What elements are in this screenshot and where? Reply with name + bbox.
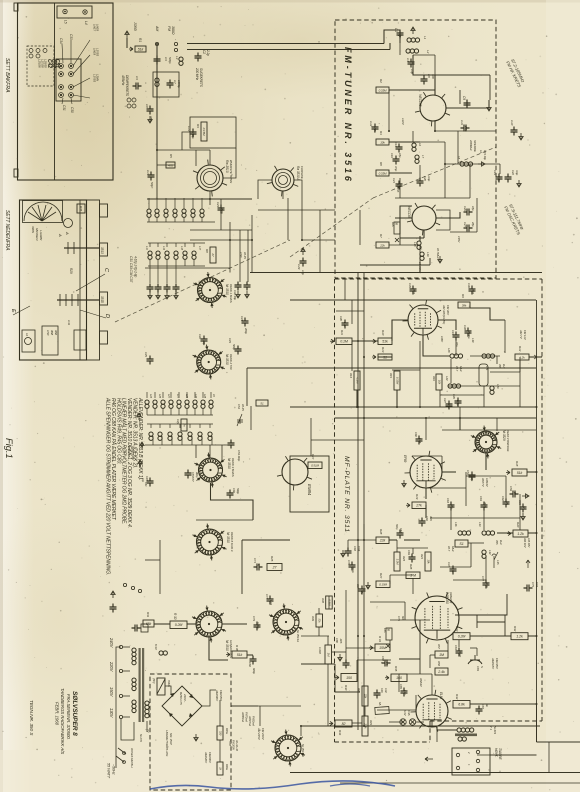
svg-text:R29: R29	[69, 268, 73, 274]
bank3 lead dn 147	[146, 409, 148, 415]
antenna strip pin 3	[59, 72, 64, 77]
T2 core2	[142, 648, 144, 722]
coil bank3 1	[153, 400, 157, 408]
svg-text:kHz: kHz	[499, 540, 503, 545]
MF-plate dashed edge	[334, 279, 336, 742]
switch S1 box	[455, 540, 468, 547]
svg-text:L17: L17	[198, 246, 202, 251]
svg-text:0.1M: 0.1M	[340, 340, 348, 344]
svg-text:LIKERETTERPLATE: LIKERETTERPLATE	[165, 730, 169, 757]
wire grid V3	[392, 320, 408, 341]
lamp wire2	[416, 721, 424, 723]
svg-text:18p: 18p	[450, 504, 454, 509]
R57 riser	[447, 640, 449, 651]
wire x520b	[519, 494, 521, 530]
C1 drop	[399, 43, 401, 55]
junction	[357, 406, 359, 408]
bank4 lead 151	[152, 436, 154, 445]
antenna strip pin 5	[59, 85, 64, 90]
capacitor C14	[396, 144, 403, 153]
bank3 lead up 187	[186, 392, 188, 398]
junction	[444, 163, 446, 165]
wire y488	[426, 487, 466, 489]
wire R19 down	[425, 505, 427, 518]
svg-text:C54: C54	[466, 470, 470, 475]
svg-text:L19: L19	[426, 252, 430, 257]
fm loop x460	[459, 90, 461, 104]
coil bank2 L15	[183, 251, 187, 259]
svg-text:R25: R25	[270, 556, 274, 562]
oscillator coil V2	[267, 166, 298, 197]
svg-text:15M: 15M	[379, 646, 386, 650]
riser x230	[229, 222, 231, 273]
mains tap 240V	[119, 645, 122, 648]
bank1 lead 1	[156, 198, 158, 209]
svg-text:3B: 3B	[387, 628, 391, 631]
triode U1b ECC85	[407, 203, 440, 235]
svg-text:C32 18p: C32 18p	[233, 290, 237, 300]
svg-text:6AV33EF1: 6AV33EF1	[35, 228, 39, 241]
capacitor C71	[254, 564, 263, 571]
AM antenna drop	[156, 46, 158, 150]
coil bank2 L14	[174, 251, 178, 259]
svg-text:R38: R38	[321, 598, 325, 603]
svg-text:AM 40V(CH81): AM 40V(CH81)	[442, 304, 446, 324]
svg-text:SETT BAKFRA: SETT BAKFRA	[4, 58, 10, 93]
bank2 lead dn 167	[166, 260, 168, 266]
jack L5	[63, 9, 67, 13]
wire wafer down	[209, 637, 228, 660]
bank1 lead 0	[148, 198, 150, 209]
wire y386b	[448, 385, 520, 387]
svg-text:1 M: 1 M	[410, 574, 416, 578]
capacitor C3	[154, 56, 161, 65]
wire y476	[466, 475, 506, 477]
R37 drop	[327, 664, 329, 726]
svg-text:3.3M: 3.3M	[395, 559, 399, 566]
svg-text:22k: 22k	[379, 243, 385, 247]
capacitor C8	[147, 106, 154, 115]
resistor R9	[458, 302, 470, 308]
svg-text:C12: C12	[369, 121, 373, 127]
EL84 left	[415, 695, 417, 710]
svg-text:150V: 150V	[109, 687, 114, 698]
svg-text:SETT NEDENFRA: SETT NEDENFRA	[4, 210, 10, 251]
ground bank row 1	[156, 292, 160, 299]
svg-text:39k: 39k	[462, 303, 467, 307]
svg-text:0.02: 0.02	[384, 688, 388, 693]
wire V4 plate	[442, 471, 456, 473]
corner drop	[548, 742, 550, 773]
wire y615b	[459, 614, 477, 616]
feeder drop 2	[389, 43, 391, 50]
arrow AM10V	[526, 560, 530, 568]
svg-text:SUGEKRETS: SUGEKRETS	[199, 68, 203, 88]
svg-text:2n: 2n	[513, 491, 517, 495]
capacitor C60b	[416, 436, 423, 445]
svg-text:3.9p: 3.9p	[515, 170, 519, 176]
svg-text:L4: L4	[84, 21, 88, 25]
junction	[357, 539, 359, 541]
ground L8	[478, 162, 485, 166]
feeder drop 1	[383, 37, 385, 44]
wire R33-R32	[470, 635, 511, 637]
svg-text:R18: R18	[515, 461, 519, 467]
wire y240b	[302, 239, 335, 241]
capacitor C19b	[453, 332, 460, 341]
svg-text:R15: R15	[389, 373, 393, 378]
svg-text:R19: R19	[415, 494, 419, 500]
wire V4 k	[425, 488, 427, 499]
capacitor C7	[167, 80, 174, 89]
svg-text:L5: L5	[64, 20, 68, 24]
svg-text:220V: 220V	[109, 661, 114, 673]
bank3 lead dn 203	[202, 409, 204, 415]
tuning gang dashed link 3	[373, 147, 496, 198]
bank2 lead up 167	[166, 243, 168, 247]
wire y142	[389, 141, 445, 143]
svg-text:32+32+16: 32+32+16	[235, 740, 239, 752]
svg-text:C2: C2	[202, 50, 206, 54]
antenna feeder wire 1	[187, 43, 384, 45]
junction	[64, 11, 66, 13]
coil bank2 L13	[165, 251, 169, 259]
bridge diode 2	[189, 694, 193, 698]
svg-text:300Ω: 300Ω	[171, 26, 175, 35]
L34 drop	[485, 556, 487, 580]
svg-text:240V~: 240V~	[183, 693, 187, 703]
svg-text:C84: C84	[381, 656, 385, 661]
C67 riser	[363, 524, 365, 540]
junction	[536, 471, 538, 473]
svg-text:C60: C60	[232, 488, 236, 493]
svg-text:130V: 130V	[109, 708, 114, 719]
svg-text:AM65mA: AM65mA	[241, 711, 245, 722]
bank1 lead 2	[165, 198, 167, 209]
R26 drop	[412, 578, 414, 594]
coil bank3 0	[145, 400, 149, 408]
R3 drop	[195, 150, 197, 166]
coil L2	[406, 49, 419, 53]
capacitor C43	[235, 346, 242, 355]
wire R6	[389, 172, 412, 174]
svg-text:C85: C85	[399, 684, 403, 689]
R57-R58	[429, 655, 431, 668]
svg-text:-025: -025	[339, 638, 343, 644]
svg-text:DEKK 2 TRI.: DEKK 2 TRI.	[229, 354, 233, 370]
wire y660	[357, 659, 391, 661]
capacitor C10	[511, 127, 518, 136]
resistor R10	[372, 338, 392, 345]
svg-text:C29: C29	[297, 264, 301, 270]
svg-text:4.0p: 4.0p	[202, 340, 206, 346]
wire cathode V3	[423, 335, 450, 356]
L21 top lead	[496, 356, 498, 364]
triode U1a ECC85	[415, 92, 450, 126]
wire L33-R20	[497, 532, 513, 534]
R38 link	[328, 596, 330, 609]
capacitor C67	[397, 530, 404, 539]
coil bank3 2	[161, 400, 165, 408]
svg-text:C70: C70	[347, 560, 351, 565]
speaker seen from below	[23, 201, 63, 223]
V4 feed	[425, 418, 427, 440]
svg-text:R58: R58	[437, 661, 441, 666]
antenna terminal FM1	[174, 42, 177, 45]
ground C29	[301, 248, 305, 255]
svg-text:C13: C13	[187, 126, 191, 132]
svg-text:3B: 3B	[395, 222, 399, 225]
svg-text:L30: L30	[471, 338, 475, 343]
svg-text:C46: C46	[380, 688, 384, 693]
svg-text:HOLDSVIS R49, R45 OG C80.: HOLDSVIS R49, R45 OG C80.	[115, 398, 121, 464]
speaker terminal 4	[476, 759, 479, 762]
bank4 top bus	[147, 423, 213, 425]
svg-text:390p: 390p	[497, 176, 501, 182]
junction	[60, 65, 62, 67]
resistor R36	[226, 651, 247, 658]
svg-text:28p: 28p	[471, 221, 475, 227]
resistor R38	[326, 596, 333, 609]
svg-text:TALERE: TALERE	[498, 748, 502, 761]
svg-text:2n: 2n	[505, 501, 509, 505]
svg-text:C42: C42	[198, 334, 202, 339]
svg-text:22k: 22k	[379, 539, 386, 543]
wire R32 right	[528, 635, 537, 637]
svg-text:C45: C45	[144, 352, 148, 357]
svg-text:Nr 3510: Nr 3510	[227, 458, 231, 469]
trimmer caps row	[29, 49, 47, 59]
svg-text:AM218V: AM218V	[491, 657, 495, 670]
capacitor C70	[349, 562, 356, 571]
svg-text:Nr 3513 B: Nr 3513 B	[301, 744, 305, 757]
bus y230	[190, 229, 252, 231]
svg-text:L21: L21	[485, 366, 489, 371]
bank1 lead dn 149	[148, 218, 150, 222]
tap lead 240V	[123, 646, 130, 648]
svg-text:C33: C33	[69, 34, 73, 40]
svg-text:R 34: R 34	[378, 636, 382, 642]
tap lead 150V	[123, 695, 130, 697]
switch wafer Nr3513B	[271, 730, 305, 767]
riser x288	[287, 198, 289, 240]
svg-text:ROSES METALL: ROSES METALL	[130, 748, 134, 769]
svg-text:C68: C68	[353, 546, 357, 551]
svg-text:Rø 3510 A: Rø 3510 A	[296, 166, 300, 180]
wire y198 fm	[395, 197, 470, 199]
junction	[209, 198, 211, 200]
wafer9 feed	[300, 726, 302, 736]
IF-can bump 4	[100, 331, 108, 344]
resistor R15	[394, 371, 400, 390]
wire L18 top	[419, 236, 421, 241]
resistor R35	[77, 204, 85, 213]
tuning shaft 2	[57, 299, 99, 301]
junction	[434, 130, 436, 132]
R39 drop	[318, 627, 320, 636]
wire y440	[311, 439, 364, 441]
svg-text:51k: 51k	[517, 471, 523, 475]
junction	[357, 340, 359, 342]
bank2 lead dn 185	[184, 260, 186, 266]
tube EF89 V4	[405, 451, 446, 493]
wire R28 right2	[404, 539, 420, 541]
wire x477	[476, 198, 478, 232]
svg-text:C51: C51	[54, 59, 60, 68]
T2 core	[139, 648, 141, 722]
junction	[229, 239, 231, 241]
capacitor C3a	[133, 83, 142, 90]
osc cathode wire	[400, 237, 424, 239]
wire R31-R30	[154, 623, 170, 625]
svg-text:R21: R21	[420, 554, 424, 559]
svg-text:200 MHz: 200 MHz	[195, 67, 199, 81]
svg-text:ANT7V: ANT7V	[481, 477, 485, 488]
svg-text:1.2k: 1.2k	[516, 635, 523, 639]
bank2 lead up 185	[184, 243, 186, 247]
R5 left	[157, 164, 175, 166]
output transformer T1 primary	[457, 728, 474, 732]
wire x506	[505, 476, 507, 499]
ground C22	[517, 180, 521, 187]
section border	[290, 299, 536, 301]
IF-can bump 3	[100, 292, 108, 305]
bank3 lead up 147	[146, 392, 148, 398]
tube1 lead up	[209, 150, 211, 165]
coil bank1 L14	[147, 209, 151, 217]
bank4 lead 160	[161, 436, 163, 445]
svg-text:L35: L35	[496, 560, 500, 565]
svg-text:27k: 27k	[415, 504, 422, 508]
capacitor C81	[456, 648, 463, 657]
svg-text:C43: C43	[228, 338, 232, 343]
tube EABC80	[412, 593, 463, 644]
svg-text:C61: C61	[144, 482, 148, 487]
svg-text:VENDER: NR. 3510 DEKK 1, 2 OG: VENDER: NR. 3510 DEKK 1, 2 OG 3 OG NR. 3…	[126, 398, 132, 528]
svg-text:C55/C57: C55/C57	[191, 472, 195, 482]
svg-text:1.2k: 1.2k	[517, 532, 524, 536]
capacitor C35	[410, 286, 417, 295]
svg-text:EABC80: EABC80	[445, 592, 449, 604]
wire y567	[440, 566, 471, 568]
coil bank3 4	[177, 400, 181, 408]
wire x458	[457, 131, 459, 164]
svg-text:240V: 240V	[109, 637, 114, 649]
osc out wire	[258, 209, 335, 211]
junction	[363, 635, 365, 637]
tube1 lead down	[209, 191, 211, 205]
svg-text:4.7n: 4.7n	[429, 516, 433, 522]
svg-text:C83: C83	[476, 666, 480, 671]
R37 riser	[327, 636, 329, 645]
svg-text:R10: R10	[381, 330, 385, 336]
bank1 lead dn 166	[165, 218, 167, 222]
ground jord	[125, 31, 129, 38]
svg-text:R26: R26	[409, 564, 413, 570]
svg-text:R32: R32	[513, 626, 517, 632]
svg-text:R35: R35	[394, 666, 398, 672]
svg-text:C75: C75	[531, 582, 535, 587]
wire x346	[345, 590, 347, 660]
wire R13	[378, 356, 392, 358]
wire box right	[231, 705, 258, 707]
svg-text:C23: C23	[216, 202, 220, 207]
svg-text:R12: R12	[518, 346, 522, 352]
resistor R27	[376, 581, 390, 588]
osc r7 drop	[399, 234, 401, 245]
svg-text:500p: 500p	[395, 524, 399, 530]
svg-text:C87: C87	[481, 704, 485, 709]
B+ bus vertical 1	[357, 273, 359, 731]
svg-text:C63: C63	[479, 496, 483, 501]
junction	[363, 356, 365, 358]
wire plate2	[467, 100, 489, 108]
resistor R37	[325, 645, 332, 664]
C23 riser	[220, 199, 222, 230]
wire x251 drop	[250, 406, 252, 430]
wire y636b	[301, 635, 329, 637]
coil L30	[482, 354, 495, 358]
svg-text:MHz: MHz	[459, 366, 463, 372]
wire y659	[399, 658, 420, 660]
svg-text:0.01: 0.01	[412, 289, 416, 295]
wire spk right	[490, 754, 537, 756]
capacitor power b	[132, 625, 141, 632]
svg-text:DEKK 1 BAKS.: DEKK 1 BAKS.	[229, 284, 233, 303]
wire y560	[145, 559, 160, 561]
junction	[459, 417, 461, 419]
svg-text:L1: L1	[423, 36, 427, 40]
osc tube left	[258, 180, 272, 199]
antenna terminal FM2	[174, 48, 177, 51]
svg-text:10k: 10k	[426, 559, 430, 564]
bank3 lead dn 187	[186, 409, 188, 415]
wire R12 right	[529, 356, 542, 358]
lamp wire	[389, 721, 403, 723]
capacitor C75	[524, 585, 533, 592]
bank4 lead 170	[171, 436, 173, 445]
chassis bottom-view box	[20, 200, 87, 360]
svg-text:AM 245V: AM 245V	[257, 727, 261, 741]
bank3 lead dn 171	[170, 409, 172, 415]
svg-text:27: 27	[211, 252, 215, 257]
bank bus	[145, 444, 230, 446]
wire EL84 to T1	[437, 727, 457, 730]
wire y430	[442, 429, 536, 431]
svg-text:0.33M: 0.33M	[379, 171, 387, 175]
riser x320	[319, 210, 321, 273]
svg-text:FRC: FRC	[391, 222, 395, 227]
sheet bottom line 1	[290, 772, 580, 774]
R41-R43	[364, 706, 366, 716]
svg-text:C51: C51	[237, 404, 241, 409]
wire y692	[335, 691, 360, 693]
svg-text:DEKK 3 BAKS.: DEKK 3 BAKS.	[231, 458, 235, 477]
svg-text:0.2M: 0.2M	[175, 623, 183, 627]
resistor R6	[376, 170, 389, 176]
svg-text:Nr.4P3: Nr.4P3	[493, 726, 497, 735]
bank3 lead up 163	[162, 392, 164, 398]
coil L29	[490, 386, 494, 394]
svg-text:C48: C48	[145, 476, 149, 481]
svg-text:AM37mA: AM37mA	[248, 715, 252, 726]
svg-text:R45a: R45a	[225, 728, 229, 734]
C19b drop	[455, 340, 457, 356]
capacitor C9	[464, 100, 471, 109]
junction	[425, 417, 427, 419]
resistor R7	[376, 242, 389, 248]
resistor R3	[201, 122, 207, 141]
